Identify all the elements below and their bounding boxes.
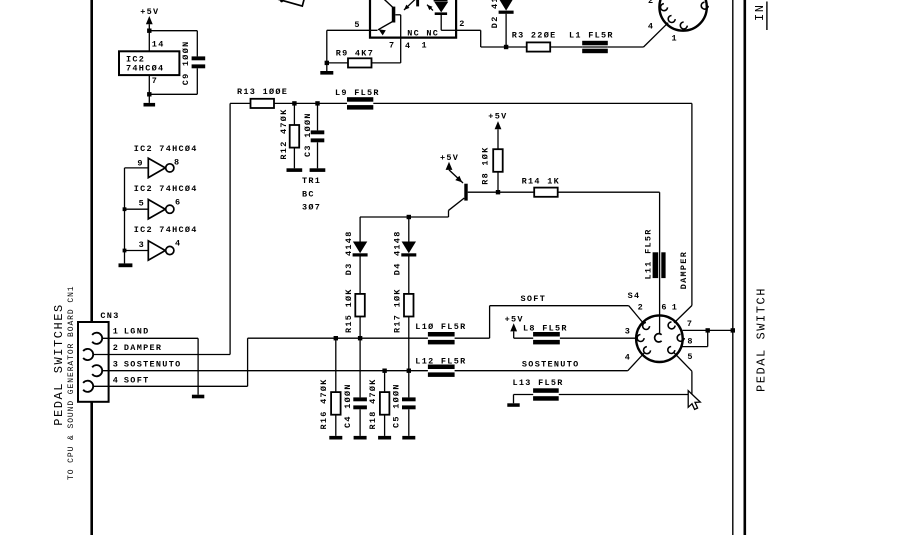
CN3 cup pin2	[83, 349, 93, 360]
node R8/base	[496, 190, 500, 194]
wire	[125, 167, 149, 169]
node D4	[407, 215, 411, 219]
svg-text:5: 5	[139, 199, 145, 209]
DIN connector S4	[636, 315, 683, 362]
svg-text:D4 4148: D4 4148	[392, 230, 402, 275]
svg-text:1: 1	[672, 303, 678, 313]
wire	[318, 102, 348, 104]
inverter gate pins 3-4	[148, 241, 165, 260]
IN cup right	[701, 2, 708, 9]
svg-text:C4 1ØØN: C4 1ØØN	[343, 383, 353, 428]
wire bus	[124, 168, 126, 264]
svg-text:SOFT: SOFT	[124, 376, 150, 386]
node	[325, 61, 329, 65]
transistor TR1 base bar	[464, 184, 467, 201]
svg-text:L1 FL5R: L1 FL5R	[569, 31, 614, 41]
light arrow	[404, 0, 416, 10]
svg-text:LGND: LGND	[124, 327, 150, 337]
svg-text:8: 8	[687, 336, 693, 346]
svg-text:9: 9	[137, 159, 143, 169]
svg-text:IC2 74HCØ4: IC2 74HCØ4	[134, 184, 198, 194]
node	[147, 92, 151, 96]
svg-text:IC2 74HCØ4: IC2 74HCØ4	[134, 225, 198, 235]
light arrow	[427, 5, 433, 11]
svg-text:+5V: +5V	[488, 111, 507, 121]
wire LGND	[102, 337, 198, 339]
svg-text:2: 2	[638, 303, 644, 313]
S4 cup pin8	[677, 334, 684, 341]
IC2 74HC04 power block	[119, 51, 179, 75]
ground (C4)	[354, 436, 367, 440]
svg-text:R15 1ØK: R15 1ØK	[344, 288, 354, 333]
wire	[196, 68, 198, 94]
wire pin8	[707, 330, 709, 346]
svg-text:+5V: +5V	[140, 7, 159, 17]
svg-text:4: 4	[405, 41, 411, 51]
wire	[125, 208, 149, 210]
node (+5V / C9)	[147, 29, 151, 33]
wire	[149, 93, 197, 95]
svg-text:IN: IN	[753, 3, 767, 21]
svg-text:2: 2	[113, 343, 119, 353]
transistor TR1 collector	[449, 198, 465, 210]
IN cup left	[661, 4, 668, 11]
IN cup lower-left	[668, 16, 675, 23]
svg-text:R18 47ØK: R18 47ØK	[368, 378, 378, 429]
svg-text:2: 2	[459, 19, 465, 29]
svg-text:TR1: TR1	[302, 176, 321, 186]
CN3 cup pin4	[83, 381, 93, 392]
svg-text:D3 4148: D3 4148	[344, 230, 354, 275]
svg-text:R12 47ØK: R12 47ØK	[279, 108, 289, 159]
svg-text:4: 4	[648, 22, 654, 32]
ground (C5)	[402, 436, 415, 440]
wire DAMPER vertical	[229, 103, 231, 354]
svg-text:CN3: CN3	[100, 311, 119, 321]
wire base row	[468, 191, 535, 193]
ground (R18)	[378, 436, 391, 440]
S4 cup pin3	[637, 335, 644, 342]
svg-text:1: 1	[672, 33, 678, 43]
ground (L13)	[507, 403, 519, 407]
wire	[149, 30, 197, 32]
wire DAMPER row	[93, 354, 230, 356]
svg-text:PEDAL SWITCHES: PEDAL SWITCHES	[52, 303, 66, 426]
svg-text:D2 4148: D2 4148	[490, 0, 500, 28]
wire to IN connector pin 4	[608, 46, 644, 48]
svg-text:3: 3	[139, 240, 145, 250]
node	[123, 249, 127, 253]
frame left border	[90, 0, 93, 535]
svg-text:C9 1ØØN: C9 1ØØN	[181, 40, 191, 85]
second transistor bar (cut)	[416, 0, 419, 6]
svg-text:14: 14	[152, 40, 165, 50]
IN cup bottom	[680, 22, 687, 29]
svg-text:R16 47ØK: R16 47ØK	[319, 378, 329, 429]
svg-text:R17 1ØK: R17 1ØK	[392, 288, 402, 333]
frame right thin line (pedal switch net)	[732, 0, 734, 535]
wire SOSTENUTO row	[102, 370, 428, 372]
inverter gate pins 5-6	[148, 200, 165, 219]
svg-text:NC NC: NC NC	[407, 29, 439, 39]
svg-text:3: 3	[113, 359, 119, 369]
S4 cup center C	[655, 334, 662, 342]
wire soft up	[489, 306, 491, 339]
mouse cursor	[688, 391, 700, 410]
wire to S4 pin 1	[674, 306, 692, 323]
node R17/C5	[407, 369, 411, 373]
wire	[359, 338, 361, 397]
ground (LGND)	[192, 395, 204, 399]
wire L13 row	[559, 394, 692, 396]
wire soft top row	[490, 305, 629, 307]
svg-text:74HCØ4: 74HCØ4	[126, 64, 164, 74]
svg-text:L11 FL5R: L11 FL5R	[644, 228, 654, 279]
wire pin7	[683, 329, 733, 331]
svg-text:R3 22ØE: R3 22ØE	[512, 31, 557, 41]
svg-text:6: 6	[175, 198, 181, 208]
svg-text:C5 1ØØN: C5 1ØØN	[392, 383, 402, 428]
LED of optocoupler	[434, 0, 448, 1]
svg-text:R13 1ØØE: R13 1ØØE	[237, 87, 288, 97]
node pin7/frame	[731, 328, 735, 332]
svg-text:3Ø7: 3Ø7	[302, 203, 321, 213]
svg-text:DAMPER: DAMPER	[679, 251, 689, 289]
node	[123, 207, 127, 211]
CN3 cup pin1	[92, 333, 102, 344]
node pin7/pin8	[706, 328, 710, 332]
CN3 cup pin3	[92, 365, 102, 376]
wire pin5	[327, 29, 378, 31]
svg-text:4: 4	[113, 376, 119, 386]
svg-text:C3 1ØØN: C3 1ØØN	[303, 112, 313, 157]
wire SOFT pin4	[93, 385, 247, 387]
ground (R16)	[329, 436, 342, 440]
svg-text:L9 FL5R: L9 FL5R	[335, 88, 380, 98]
S4 cup pin2	[643, 323, 650, 330]
IN underline	[766, 2, 768, 31]
node R15/C4	[358, 336, 362, 340]
ground (pin5/R9)	[320, 71, 333, 75]
svg-text:7: 7	[687, 319, 693, 329]
svg-text:DAMPER: DAMPER	[124, 343, 162, 353]
svg-text:7: 7	[152, 76, 158, 86]
svg-text:R14 1K: R14 1K	[522, 177, 560, 187]
svg-text:BC: BC	[302, 189, 315, 199]
wire sostenuto row	[455, 370, 628, 372]
connector CN3 box	[78, 322, 109, 402]
svg-text:2: 2	[648, 0, 654, 6]
svg-text:7: 7	[389, 41, 395, 51]
wire to S4 pin 4	[628, 353, 645, 371]
node R16	[334, 336, 338, 340]
diode D2 4148	[499, 0, 513, 11]
S4 cup pin5	[668, 347, 675, 354]
svg-text:IC2 74HCØ4: IC2 74HCØ4	[134, 144, 198, 154]
svg-text:R9 4K7: R9 4K7	[336, 48, 374, 58]
wire SOFT row	[248, 337, 428, 339]
S4 cup pin4	[644, 347, 651, 354]
svg-text:SOFT: SOFT	[521, 294, 547, 304]
S4 cup pin1	[668, 322, 675, 329]
wire LED to pin2	[440, 15, 442, 30]
wire	[326, 30, 328, 71]
wire to S4 pin 2	[629, 306, 644, 324]
wire	[196, 31, 198, 57]
svg-text:3: 3	[625, 327, 631, 337]
svg-text:S4: S4	[628, 291, 641, 301]
ground (C3)	[310, 168, 326, 172]
wire base pin4	[395, 14, 400, 16]
wire	[294, 102, 317, 104]
node R13/R12	[292, 101, 296, 105]
svg-text:L8 FL5R: L8 FL5R	[523, 323, 568, 333]
node D2/R3	[504, 45, 508, 49]
svg-text:PEDAL SWITCH: PEDAL SWITCH	[755, 287, 769, 392]
svg-text:8: 8	[174, 157, 180, 167]
inverter gate pins 9-8	[148, 158, 165, 177]
node R18	[382, 369, 386, 373]
phototransistor base bar	[392, 7, 396, 23]
svg-text:5: 5	[354, 20, 360, 30]
node C3	[315, 101, 319, 105]
phototransistor emitter	[378, 21, 394, 30]
wire damper top row	[373, 102, 692, 104]
svg-text:TO CPU & SOUND GENERATOR BOARD: TO CPU & SOUND GENERATOR BOARD CN1	[67, 285, 76, 480]
ground (R12)	[287, 168, 303, 172]
svg-text:4: 4	[625, 352, 631, 362]
optocoupler IC box	[370, 0, 456, 38]
transistor TR1 emitter	[449, 170, 463, 183]
wire pin7	[148, 75, 150, 94]
svg-text:L1Ø FL5R: L1Ø FL5R	[415, 322, 466, 332]
frame right thick border	[743, 0, 746, 535]
wire to S4 pin 3	[560, 337, 637, 339]
wire	[455, 337, 490, 339]
ground (inverters)	[119, 263, 133, 267]
wire pin2 to D2	[456, 29, 481, 31]
svg-text:L13 FL5R: L13 FL5R	[513, 378, 564, 388]
svg-text:1: 1	[422, 41, 428, 51]
wire damper vertical	[691, 103, 693, 305]
svg-text:4: 4	[175, 239, 181, 249]
svg-text:+5V: +5V	[505, 314, 524, 324]
ground (IC2)	[148, 94, 150, 103]
wire pin14	[148, 31, 150, 52]
svg-text:6: 6	[661, 302, 667, 312]
svg-text:5: 5	[687, 352, 693, 362]
DIN connector (IN) top	[659, 0, 706, 31]
phototransistor collector	[379, 0, 394, 8]
svg-text:SOSTENUTO: SOSTENUTO	[124, 359, 182, 369]
svg-text:SOSTENUTO: SOSTENUTO	[522, 359, 580, 369]
wire to S4 pin 5	[691, 371, 693, 394]
capacitor C9 100N	[192, 56, 206, 60]
svg-text:1: 1	[113, 327, 119, 337]
wire to S4 pin 6	[659, 192, 661, 333]
svg-text:R8 1ØK: R8 1ØK	[480, 146, 490, 184]
svg-text:+5V: +5V	[440, 153, 459, 163]
cut shape top-left	[276, 0, 305, 6]
wire	[125, 250, 149, 252]
